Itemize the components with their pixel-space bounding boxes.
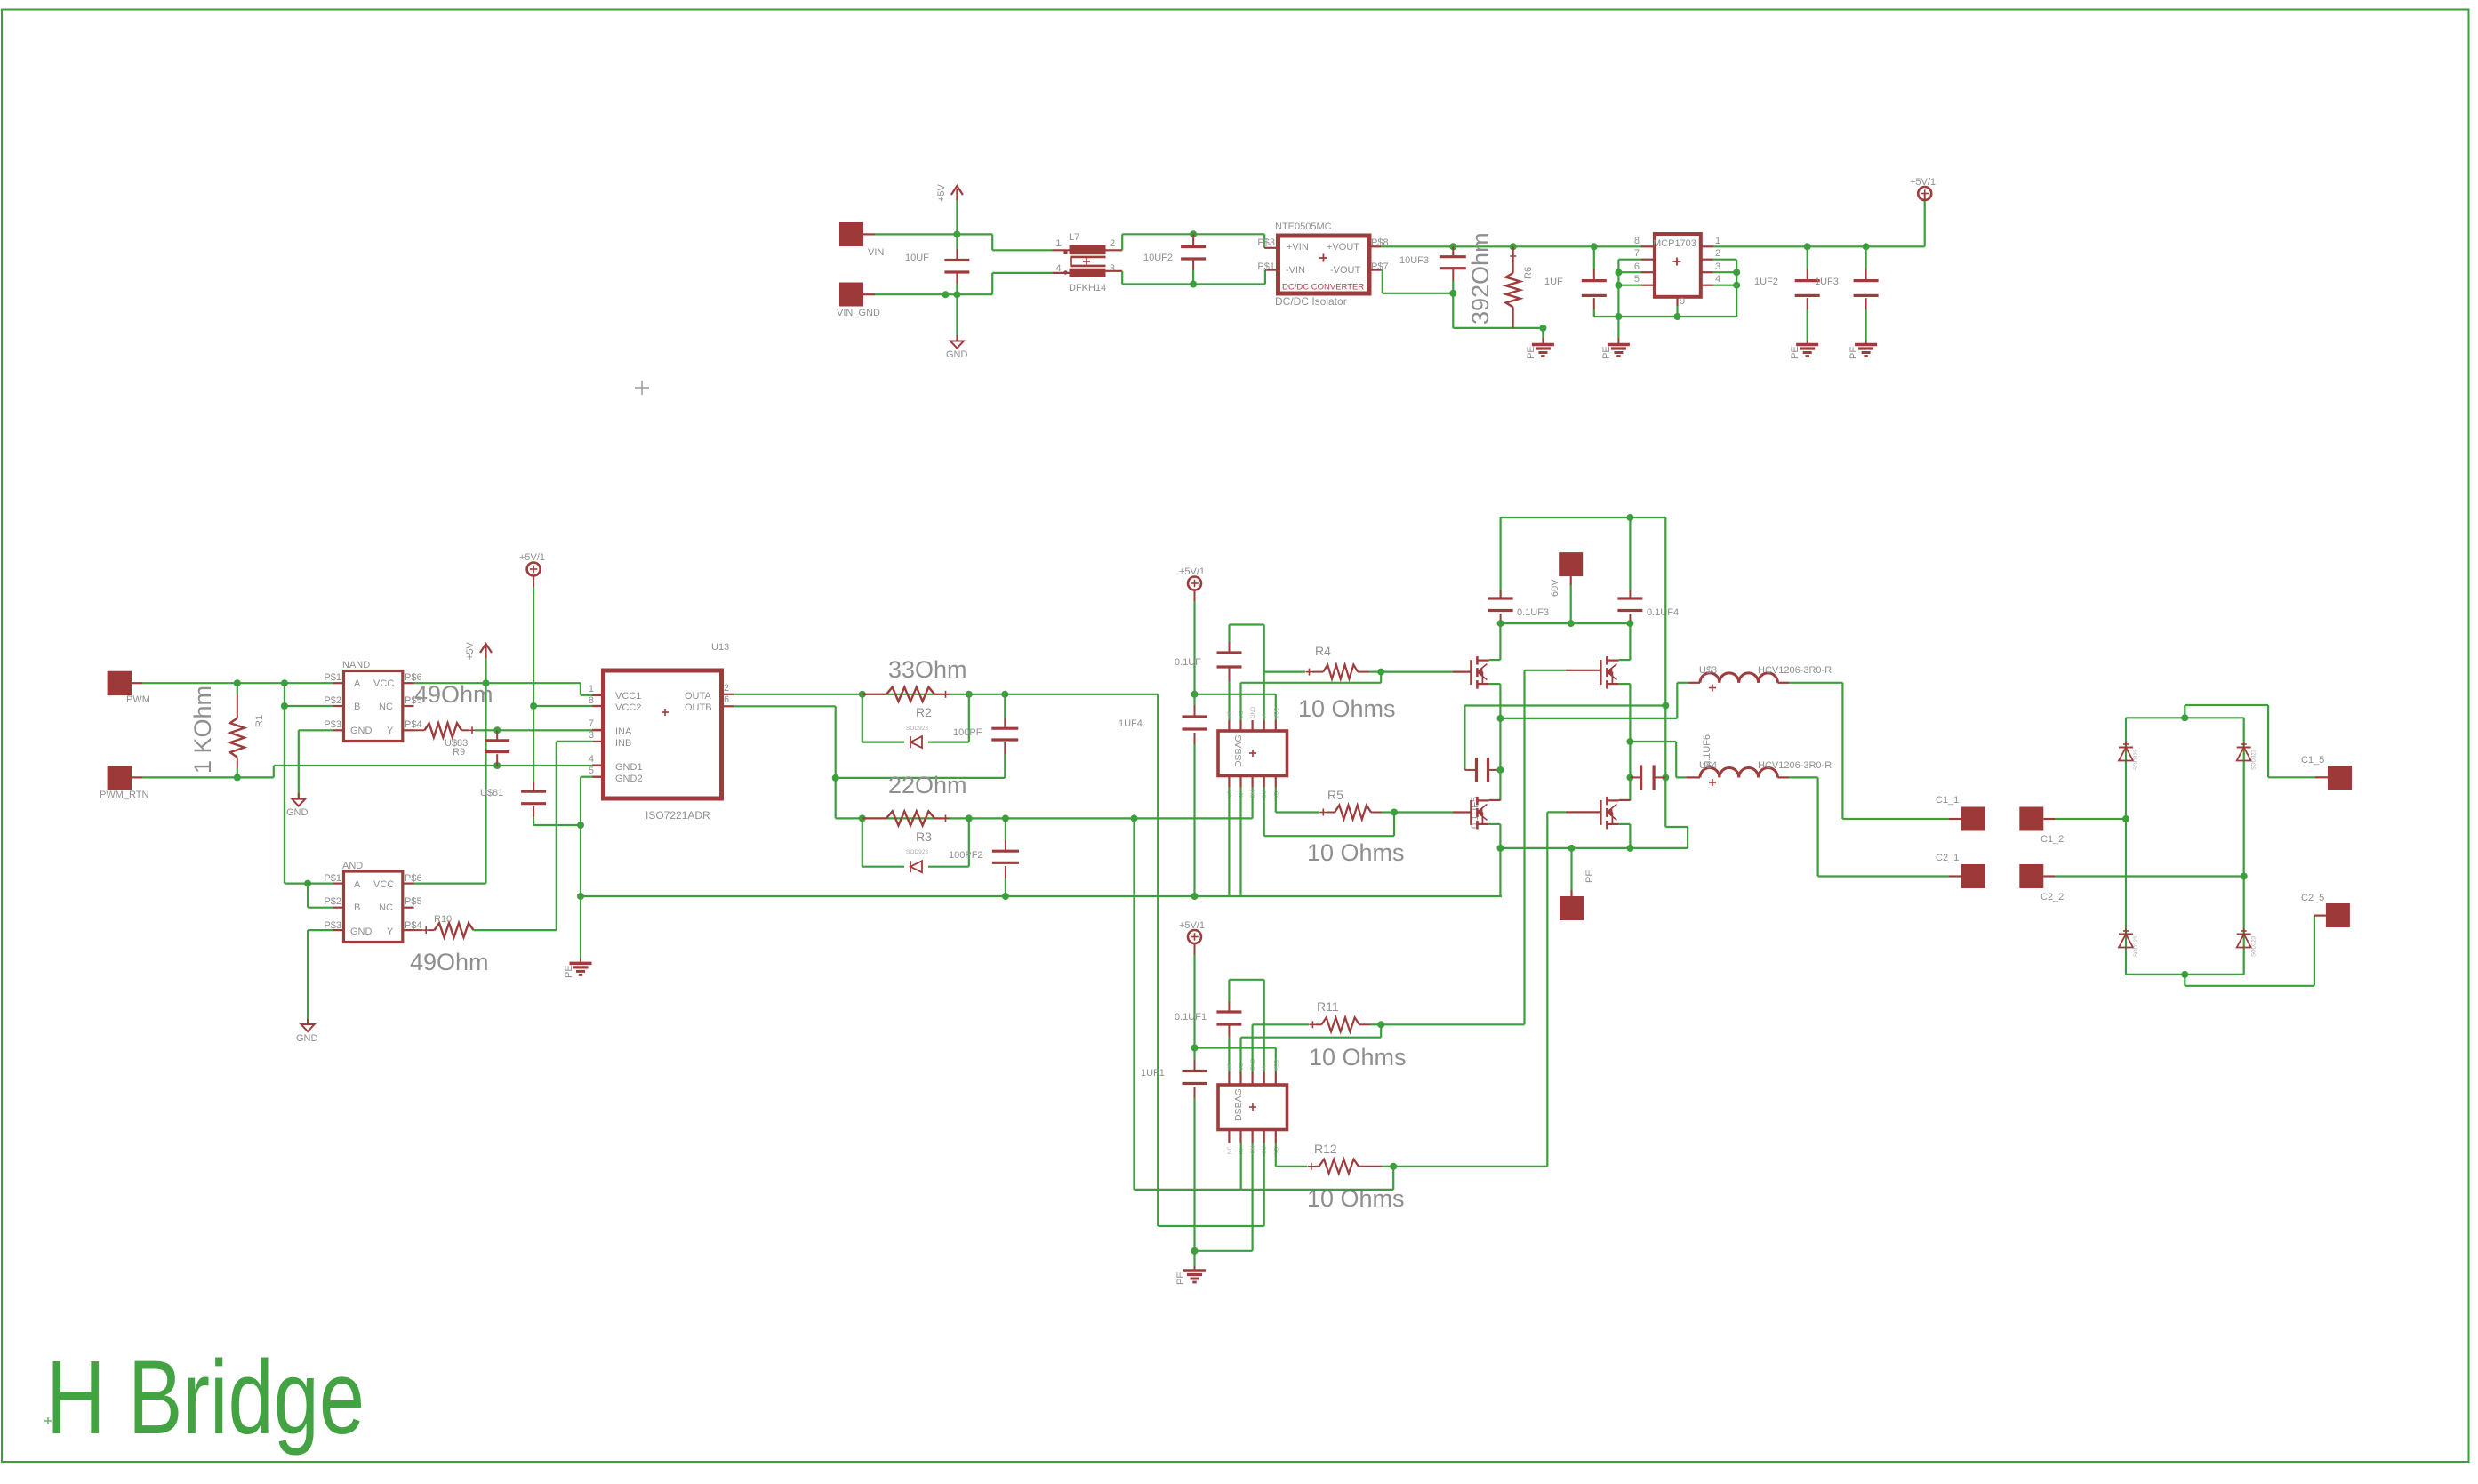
wire Q4 drain	[1619, 799, 1631, 801]
wire PE stub (DSBAG2)	[1193, 1251, 1195, 1271]
wire VIN_GND to node	[875, 293, 957, 295]
wire R12 loopback	[1241, 1167, 1394, 1190]
svg-text:10 Ohms: 10 Ohms	[1298, 695, 1396, 722]
label U$83	[445, 738, 468, 749]
wire AND VCC up	[414, 882, 486, 884]
capacitor 0.1UF6	[1630, 734, 1712, 790]
svg-text:U$4: U$4	[1699, 760, 1717, 771]
junction R5 out	[1391, 809, 1398, 816]
wire Q1 source	[1489, 684, 1501, 800]
junction OUTB cap	[1002, 814, 1009, 822]
capacitor U$83	[485, 730, 509, 766]
capacitor 0.1UF5	[1464, 758, 1500, 829]
transistor Q2 (upper right)	[1600, 656, 1618, 689]
junction 10UF2 bottom	[1190, 281, 1197, 288]
svg-text:U$81: U$81	[480, 788, 503, 798]
transistor Q3 (lower left)	[1471, 797, 1488, 830]
label 10 Ohms (R5)	[1307, 839, 1405, 866]
svg-text:10UF2: 10UF2	[1143, 253, 1173, 263]
junction OUTA cap	[1001, 691, 1008, 698]
junction R4 out	[1377, 669, 1384, 676]
junction R11 out	[1377, 1021, 1384, 1028]
wire dsbag1 pin2 down	[1239, 788, 1241, 896]
wire 100PF to OUTB	[836, 777, 1006, 779]
svg-text:VCC1: VCC1	[615, 691, 641, 702]
junction 0.1UF5 right	[1496, 766, 1504, 774]
svg-text:GND: GND	[946, 349, 968, 360]
wire Q4 source	[1619, 824, 1631, 848]
wire U$81 to GND2 vert	[533, 824, 581, 826]
crosshair mark	[635, 381, 649, 395]
capacitor 10UF2	[1143, 234, 1206, 284]
gate NAND box	[324, 660, 421, 742]
svg-text:3: 3	[1715, 261, 1720, 272]
wire 0.1UF loop	[1230, 625, 1264, 721]
svg-text:+5V/1: +5V/1	[1179, 920, 1205, 931]
capacitor 0.1UF	[1175, 653, 1242, 668]
dsbag2 bottom pins	[1228, 1130, 1279, 1155]
svg-text:DC/DC Isolator: DC/DC Isolator	[1275, 295, 1347, 308]
svg-text:P$6: P$6	[405, 873, 422, 884]
svg-text:P$1: P$1	[1257, 261, 1275, 272]
junction OUTB r3r	[966, 814, 973, 822]
junction Q1 source b	[1496, 715, 1504, 722]
resistor R4 10 Ohms	[1264, 644, 1382, 679]
label 49Ohm (R9)	[414, 681, 493, 708]
label SOD923 R2	[906, 726, 928, 732]
resistor R9 49Ohm	[414, 723, 498, 737]
svg-text:+VOUT: +VOUT	[1327, 242, 1359, 253]
svg-text:VIN_GND: VIN_GND	[837, 308, 880, 318]
capacitor 0.1UF1	[1175, 1012, 1241, 1024]
junction ISO VCC2	[530, 702, 537, 710]
label 10 Ohms (R12)	[1307, 1185, 1405, 1212]
svg-text:OUTB: OUTB	[685, 702, 712, 713]
wire snubber top rail	[1501, 517, 1666, 518]
label R9	[453, 747, 465, 758]
diode D3 bypass	[862, 818, 969, 872]
wire source rail	[1500, 847, 1688, 849]
wire output A run	[1500, 683, 1700, 718]
junction R1 bottom	[234, 774, 241, 781]
svg-text:VS: VS	[1228, 1063, 1233, 1071]
svg-text:R5: R5	[1327, 788, 1343, 802]
svg-text:8: 8	[1634, 236, 1640, 246]
svg-text:7: 7	[589, 718, 594, 729]
dsbag1 top pins	[1228, 706, 1279, 731]
junction 0.1UF6 right	[1662, 774, 1669, 781]
ground GND (NAND)	[286, 799, 309, 818]
ground PE (ISO)	[564, 963, 592, 978]
svg-text:R11: R11	[1317, 999, 1339, 1014]
wire OUTB row	[836, 817, 1253, 819]
svg-text:R10: R10	[434, 914, 452, 925]
ground PE (DSBAG2)	[1175, 1271, 1206, 1285]
svg-text:R9: R9	[453, 747, 465, 758]
label R6	[1523, 267, 1534, 279]
wire bridge left rail	[2125, 718, 2127, 975]
svg-text:1UF2: 1UF2	[1754, 277, 1778, 287]
svg-text:ISO7221ADR: ISO7221ADR	[646, 809, 710, 822]
svg-text:B: B	[354, 702, 360, 712]
wire Q2 drain	[1619, 623, 1631, 660]
svg-text:VCC: VCC	[373, 879, 394, 890]
wire C2_2 to bridge	[2056, 875, 2244, 877]
pad C1_2	[2019, 807, 2064, 846]
wire PWM down to AND	[285, 706, 333, 884]
driver DSBAG2 box	[1218, 1085, 1287, 1130]
junction 0.1UF6 left	[1626, 774, 1633, 781]
wire OUTB feed join	[1135, 1143, 1241, 1190]
svg-text:NTE0505MC: NTE0505MC	[1275, 221, 1332, 232]
svg-text:10UF: 10UF	[905, 253, 929, 263]
nand pin stubs left	[333, 683, 344, 730]
svg-text:A: A	[354, 879, 361, 890]
diode D7 (bottom left)	[2119, 929, 2139, 958]
resistor R10 49Ohm	[414, 914, 474, 937]
mcp pin1 stub	[1701, 236, 1720, 246]
junction VIN_GND node b	[953, 291, 960, 298]
svg-text:10 Ohms: 10 Ohms	[1307, 839, 1405, 866]
svg-text:-VIN: -VIN	[1286, 265, 1305, 276]
svg-text:100PF2: 100PF2	[949, 850, 983, 861]
svg-text:INA: INA	[615, 726, 632, 737]
wire Q2 source	[1619, 684, 1631, 800]
capacitor 100PF	[953, 694, 1018, 778]
svg-text:GND: GND	[350, 726, 373, 736]
svg-text:PWM_RTN: PWM_RTN	[100, 790, 148, 800]
svg-text:100PF: 100PF	[953, 727, 982, 738]
svg-text:+5V/1: +5V/1	[519, 552, 545, 563]
junction VIN_GND node a	[942, 291, 950, 298]
svg-text:C1_1: C1_1	[1936, 795, 1959, 806]
mcp pin9 wire	[1678, 296, 1686, 317]
ground PE under R6	[1526, 345, 1554, 360]
junction 1UF top	[1591, 243, 1598, 250]
junction pin5	[1615, 282, 1622, 289]
svg-text:PWM: PWM	[126, 694, 150, 705]
svg-text:SOD323: SOD323	[2134, 749, 2139, 770]
diode D5 (top left)	[2119, 742, 2139, 771]
power +5V/1 (ISO)	[519, 552, 545, 706]
junction 10UF2 top	[1190, 230, 1197, 237]
svg-text:2: 2	[724, 683, 729, 694]
svg-text:5: 5	[589, 766, 594, 776]
svg-text:P$5: P$5	[405, 896, 422, 907]
wire Q3 source	[1489, 824, 1501, 848]
svg-text:Y: Y	[387, 726, 394, 736]
capacitor 0.1UF4	[1617, 517, 1679, 623]
svg-text:1: 1	[1715, 236, 1720, 246]
wire P$6 to ISO VCC1	[581, 683, 604, 695]
wire OUTB	[734, 706, 836, 818]
svg-text:GND2: GND2	[615, 774, 643, 784]
junction +5V DSBAG1	[1191, 691, 1199, 698]
svg-text:OUTA: OUTA	[685, 691, 711, 702]
svg-text:0.1UF4: 0.1UF4	[1647, 607, 1679, 618]
wire top to C1_5	[2185, 705, 2328, 777]
junction bridge left	[2122, 815, 2129, 822]
junction gnd bus b	[1674, 313, 1681, 320]
pad PWM_RTN	[100, 766, 148, 800]
power +5V/1 (DSBAG2)	[1179, 920, 1205, 1048]
svg-text:4: 4	[1715, 274, 1720, 285]
svg-text:P$3: P$3	[324, 719, 341, 730]
wire GND2 to PE	[580, 896, 581, 963]
diode D8 (bottom right)	[2237, 929, 2257, 958]
wire snubber left leg	[1464, 706, 1665, 770]
svg-text:GND: GND	[286, 807, 309, 818]
junction 1UF3 top	[1863, 243, 1870, 250]
wire gnd bus under MCP	[1594, 316, 1736, 317]
svg-text:0.1UF: 0.1UF	[1175, 657, 1201, 668]
gate AND box	[324, 861, 421, 943]
junction bridge right	[2241, 873, 2248, 880]
svg-text:U13: U13	[711, 642, 729, 653]
svg-text:VCC2: VCC2	[615, 702, 641, 713]
pad C2_5	[2301, 893, 2350, 927]
wire L7 pin3 to NTE P$1	[1106, 270, 1279, 285]
junction 10UF3 top	[1449, 243, 1456, 250]
svg-text:VIN: VIN	[868, 247, 884, 258]
label 22Ohm	[888, 772, 967, 798]
svg-text:C2_1: C2_1	[1936, 853, 1959, 863]
junction 60V b	[1568, 620, 1575, 627]
capacitor 100PF2	[949, 818, 1019, 896]
svg-text:P$4: P$4	[405, 719, 422, 730]
svg-text:HCV1206-3R0-R: HCV1206-3R0-R	[1758, 665, 1832, 676]
junction gnd bus a	[1615, 313, 1622, 320]
svg-text:HCV1206-3R0-R: HCV1206-3R0-R	[1758, 760, 1832, 771]
ground PE under 1UF3	[1848, 345, 1877, 360]
svg-text:SOD923: SOD923	[906, 849, 928, 855]
wire VIN to node	[875, 233, 957, 235]
wire Q3 drain	[1489, 799, 1501, 801]
wire R4 loopback	[1241, 672, 1382, 720]
mcp pin3 wire	[1701, 261, 1736, 272]
capacitor 0.1UF3	[1488, 517, 1549, 623]
dsbag1 bottom pins	[1228, 776, 1279, 799]
junction bridge top	[2181, 714, 2188, 721]
svg-text:PE: PE	[1790, 346, 1800, 359]
wire bridge top	[2126, 717, 2244, 718]
wire +5V to pin5 (2)	[1195, 1048, 1276, 1072]
title H Bridge	[46, 1339, 365, 1456]
svg-text:9: 9	[1680, 296, 1685, 307]
svg-text:SOD323: SOD323	[2252, 935, 2257, 957]
svg-text:R2: R2	[916, 705, 932, 719]
wire VIN to L7 pin1	[957, 234, 1069, 250]
wire U$4 to C2_1	[1777, 777, 1961, 876]
dsbag2 top pins	[1228, 1058, 1279, 1085]
power +5V/1 (top right)	[1910, 177, 1936, 200]
iso pin stubs left	[589, 684, 604, 777]
capacitor 1UF4	[1119, 694, 1207, 896]
svg-text:+5V/1: +5V/1	[1910, 177, 1936, 188]
wire R10 to INB	[474, 742, 593, 930]
wire OUTA down feed	[1157, 694, 1159, 1226]
junction bridge bottom	[2181, 971, 2188, 978]
junction OUTB r3l	[859, 814, 866, 822]
resistor R1 1KOhm	[230, 683, 245, 777]
junction R6 gnd	[1539, 325, 1546, 332]
transistor Q1 (upper left)	[1471, 656, 1488, 689]
svg-text:PE: PE	[564, 965, 574, 978]
label R3	[916, 830, 932, 844]
svg-text:SOD323: SOD323	[2134, 935, 2139, 957]
svg-text:C1_2: C1_2	[2041, 834, 2064, 845]
svg-text:3: 3	[1110, 263, 1115, 274]
svg-text:4: 4	[1055, 263, 1061, 274]
junction AND P$1	[304, 880, 311, 887]
junction rail Q4	[1626, 845, 1633, 852]
svg-text:1: 1	[1055, 238, 1061, 249]
svg-text:NC: NC	[1228, 1146, 1233, 1154]
ground GND (AND)	[296, 1024, 318, 1044]
svg-text:R3: R3	[916, 830, 932, 844]
svg-text:A: A	[354, 678, 361, 689]
pad C1_5	[2301, 755, 2352, 790]
junction 10UF3 bottom	[1449, 290, 1456, 297]
wire PE pad stub	[1570, 848, 1572, 896]
junction INA cap	[493, 726, 501, 734]
capacitor 1UF	[1544, 246, 1607, 317]
nand pin stubs right	[403, 683, 414, 730]
capacitor 10UF	[905, 234, 969, 294]
svg-text:3: 3	[589, 730, 594, 741]
junction P$2	[281, 702, 288, 710]
svg-text:1UF1: 1UF1	[1141, 1068, 1165, 1079]
wire U$3 to C1_1	[1777, 683, 1961, 819]
capacitor 1UF1	[1141, 1048, 1207, 1251]
junction OUTB mid	[832, 774, 839, 782]
wire P$8 rail	[1369, 245, 1925, 247]
wire Q2 gate stub	[1572, 670, 1601, 671]
svg-text:+5V/1: +5V/1	[1179, 566, 1205, 577]
wire ISO GND2	[581, 777, 604, 896]
svg-text:PE: PE	[1848, 346, 1859, 359]
svg-text:R12: R12	[1314, 1142, 1337, 1156]
wire R11 to UR gate	[1381, 670, 1571, 1025]
svg-text:R1: R1	[254, 715, 265, 727]
wire VIN_GND to L7 pin4	[957, 273, 1069, 294]
svg-text:VDD: VDD	[1274, 1059, 1279, 1071]
power +5V/1 (DSBAG1)	[1179, 566, 1205, 694]
isolator ISO7221ADR box	[604, 642, 730, 822]
svg-text:GND: GND	[1251, 706, 1256, 718]
and pin stubs left	[333, 884, 344, 931]
label 33Ohm	[888, 656, 967, 683]
wire AND P$2 tie	[308, 884, 333, 908]
capacitor 10UF3	[1399, 246, 1466, 293]
junction +5V DSBAG2	[1191, 1045, 1199, 1052]
wire to ISO VCC2 pin8	[533, 705, 603, 707]
ground PE under 1UF2	[1790, 345, 1818, 360]
svg-text:C1_5: C1_5	[2301, 755, 2324, 766]
svg-text:Y: Y	[387, 926, 394, 937]
wire R5 loopback	[1264, 788, 1394, 837]
svg-text:GND1: GND1	[615, 762, 643, 773]
svg-text:10 Ohms: 10 Ohms	[1309, 1044, 1407, 1071]
junction 0.1UF4 top	[1626, 514, 1633, 521]
svg-text:L7: L7	[1069, 232, 1079, 243]
svg-text:DSBAG: DSBAG	[1233, 734, 1244, 767]
transistor Q4 (lower right)	[1600, 797, 1618, 830]
wire R11 loopback	[1241, 1024, 1382, 1071]
svg-text:C2_5: C2_5	[2301, 893, 2324, 903]
wire R5 to LL gate	[1394, 811, 1472, 813]
wire NAND P$2 tie	[285, 683, 333, 706]
mcp pin4 wire	[1701, 274, 1736, 285]
wire 60V line	[1501, 585, 1631, 623]
svg-text:+5V: +5V	[936, 183, 947, 202]
svg-text:R6: R6	[1523, 267, 1534, 279]
svg-text:INB: INB	[615, 738, 631, 749]
wire gnd run to PE	[1453, 293, 1543, 328]
capacitor 1UF3	[1815, 246, 1879, 332]
diode D6 (top right)	[2237, 742, 2257, 771]
svg-text:60V: 60V	[1550, 579, 1560, 597]
svg-text:U$3: U$3	[1699, 665, 1717, 676]
wire rail to PE line	[1499, 848, 1501, 896]
wire 0.1UF to pin1	[1229, 667, 1231, 720]
svg-text:1UF3: 1UF3	[1815, 277, 1839, 287]
svg-text:SOD323: SOD323	[2252, 749, 2257, 770]
svg-text:49Ohm: 49Ohm	[414, 681, 493, 708]
svg-text:5: 5	[1634, 274, 1640, 285]
svg-text:2: 2	[1110, 238, 1115, 249]
resistor R3 22Ohm	[862, 811, 950, 825]
junction U$83 bottom	[493, 762, 501, 769]
wire P$7 to gnd run	[1369, 270, 1453, 293]
corner PE line riser	[1500, 895, 1502, 897]
label R1	[254, 715, 265, 727]
label 10 Ohms (R11)	[1309, 1044, 1407, 1071]
wire bridge bottom	[2126, 974, 2244, 975]
svg-text:VCC: VCC	[373, 678, 394, 689]
wire bridge right rail	[2243, 718, 2245, 975]
wire PWM_RTN line	[143, 766, 604, 777]
svg-text:1 KOhm: 1 KOhm	[189, 686, 216, 774]
junction PWM branch	[281, 679, 288, 686]
wire +5V to pin5	[1195, 694, 1276, 720]
wire PWM line	[143, 682, 333, 684]
svg-text:0.1UF1: 0.1UF1	[1175, 1012, 1207, 1023]
resistor R12 10 Ohms	[1276, 1142, 1393, 1174]
mcp pin8 stub	[1634, 236, 1655, 246]
svg-text:VI: VI	[1263, 713, 1268, 718]
svg-text:GN: GN	[1251, 790, 1256, 798]
resistor R2 33Ohm	[862, 687, 950, 702]
svg-text:PE: PE	[1584, 870, 1595, 883]
wire PE gnd line	[581, 895, 1502, 897]
junction OUTB feed	[1131, 814, 1138, 822]
regulator MCP1703 box	[1653, 234, 1701, 297]
pad VIN_GND	[837, 283, 880, 319]
mcp pin5 wire	[1618, 274, 1655, 285]
svg-text:AND: AND	[342, 861, 363, 871]
svg-text:P$3: P$3	[1257, 237, 1275, 248]
junction pin6	[1615, 269, 1622, 276]
svg-text:-VOUT: -VOUT	[1330, 265, 1361, 276]
svg-text:DSBAG: DSBAG	[1233, 1088, 1244, 1121]
junction Q2 source c	[1626, 738, 1633, 745]
svg-text:NAND: NAND	[342, 660, 370, 670]
junction PE 100PF2	[1002, 893, 1009, 900]
svg-text:1UF4: 1UF4	[1119, 718, 1143, 729]
svg-text:+VIN: +VIN	[1287, 242, 1309, 253]
svg-text:+5V: +5V	[465, 641, 476, 660]
